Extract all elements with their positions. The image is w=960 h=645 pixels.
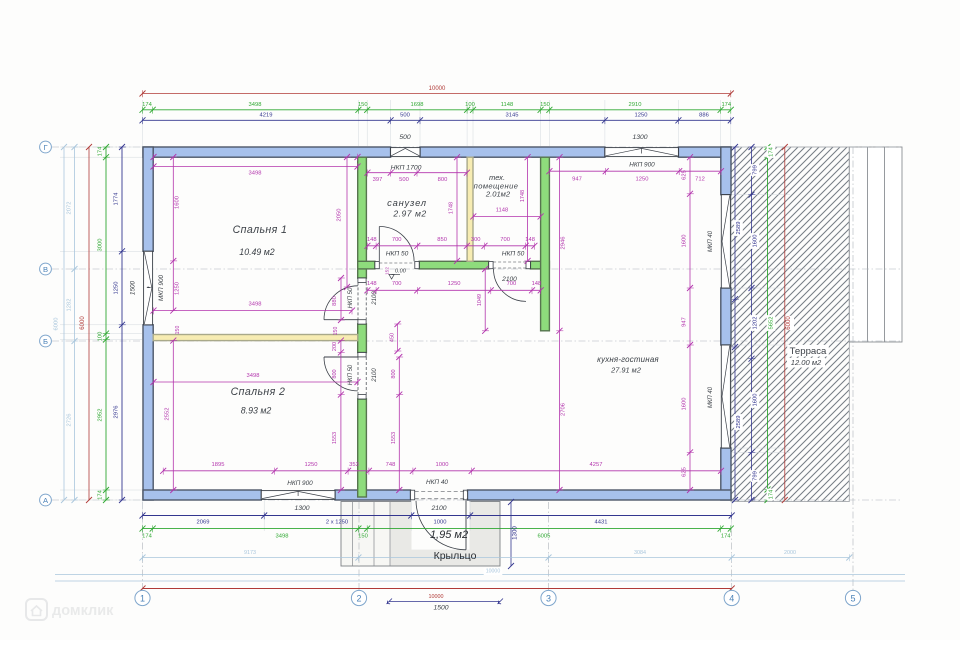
svg-text:НКП 50: НКП 50 bbox=[348, 287, 354, 308]
axis line Б bbox=[52, 340, 902, 342]
label МКП 900 left bbox=[158, 274, 165, 301]
svg-text:148: 148 bbox=[532, 281, 542, 287]
svg-text:6000: 6000 bbox=[80, 316, 86, 330]
dim hall south segs bbox=[391, 354, 403, 493]
dim tech left 1748 bbox=[520, 154, 532, 264]
door entrance swing bbox=[416, 501, 466, 550]
room bedroom2 area bbox=[241, 406, 272, 416]
window label 1500 bbox=[130, 280, 137, 295]
room bath name bbox=[387, 197, 427, 208]
dim bedroom1 right 2050 bbox=[337, 154, 351, 290]
svg-text:2000: 2000 bbox=[784, 550, 796, 556]
room tech name 2 bbox=[474, 182, 519, 191]
label НКП 40 bottom bbox=[426, 479, 448, 486]
svg-text:1250: 1250 bbox=[305, 462, 318, 468]
left red line 6000 bbox=[86, 144, 92, 503]
svg-text:3145: 3145 bbox=[506, 112, 519, 118]
svg-text:3000: 3000 bbox=[98, 239, 104, 252]
svg-text:625: 625 bbox=[682, 467, 688, 477]
dim kitchen east bbox=[682, 154, 694, 493]
label 2100 tech door bbox=[501, 276, 517, 283]
exterior wall right bbox=[721, 147, 731, 500]
svg-text:9173: 9173 bbox=[244, 550, 256, 556]
svg-text:353: 353 bbox=[349, 462, 359, 468]
svg-text:200: 200 bbox=[332, 342, 338, 351]
svg-text:150: 150 bbox=[358, 534, 368, 540]
svg-text:2100: 2100 bbox=[501, 276, 517, 283]
svg-text:2910: 2910 bbox=[629, 102, 642, 108]
svg-text:1250: 1250 bbox=[448, 281, 461, 287]
red line bottom bbox=[140, 586, 735, 592]
svg-text:799: 799 bbox=[753, 165, 759, 175]
svg-text:748: 748 bbox=[386, 462, 396, 468]
svg-text:2 x 1250: 2 x 1250 bbox=[326, 520, 348, 526]
room bedroom1 area bbox=[239, 247, 274, 257]
partition wall bedrooms divider (yellow horizontal) bbox=[153, 335, 358, 341]
dim chain green right bbox=[764, 144, 775, 503]
svg-text:НКП 50: НКП 50 bbox=[348, 364, 354, 385]
svg-text:1300: 1300 bbox=[294, 505, 309, 512]
svg-text:450: 450 bbox=[390, 333, 396, 342]
svg-text:174: 174 bbox=[721, 534, 731, 540]
svg-text:2946: 2946 bbox=[561, 237, 567, 250]
axis bubble В bbox=[40, 263, 52, 275]
svg-text:3498: 3498 bbox=[249, 102, 262, 108]
dim chain dark right inner bbox=[732, 144, 743, 503]
dim bottom row bbox=[160, 462, 724, 475]
svg-text:1748: 1748 bbox=[520, 190, 526, 202]
exterior wall left bbox=[143, 147, 153, 500]
svg-text:1600: 1600 bbox=[753, 394, 759, 407]
elevation mark 0.00 bbox=[389, 269, 407, 280]
door opening dashes bbox=[358, 262, 526, 499]
svg-text:947: 947 bbox=[682, 317, 688, 327]
room bedroom2 name bbox=[231, 386, 286, 398]
dim bedroom2 left 2552 bbox=[165, 338, 178, 493]
label НКП 50 bedroom1 bbox=[348, 287, 354, 308]
svg-text:Спальня 1: Спальня 1 bbox=[233, 224, 288, 236]
svg-text:1500: 1500 bbox=[433, 605, 448, 612]
dim bedroom1 top 3498 bbox=[151, 163, 361, 176]
dim kitchen top row bbox=[546, 168, 724, 183]
label НКП 1700 bbox=[391, 165, 422, 172]
svg-text:800: 800 bbox=[332, 369, 338, 378]
svg-text:4257: 4257 bbox=[590, 462, 603, 468]
svg-text:1300: 1300 bbox=[632, 134, 647, 141]
svg-text:кухня-гостиная: кухня-гостиная bbox=[597, 355, 659, 364]
svg-text:2.01м2: 2.01м2 bbox=[485, 190, 511, 199]
svg-text:Г: Г bbox=[43, 143, 47, 152]
label МКП 40 upper bbox=[708, 230, 714, 252]
axis bubble А bbox=[40, 494, 52, 506]
room porch name bbox=[434, 550, 477, 562]
svg-text:1553: 1553 bbox=[332, 432, 338, 444]
svg-text:10.49 м2: 10.49 м2 bbox=[239, 247, 274, 257]
window size 1300 bbox=[632, 134, 647, 141]
svg-text:100: 100 bbox=[98, 332, 104, 342]
svg-text:148: 148 bbox=[525, 237, 535, 243]
axis line А bbox=[52, 499, 902, 501]
svg-text:174: 174 bbox=[98, 146, 104, 156]
svg-text:2072: 2072 bbox=[67, 202, 73, 215]
svg-text:150: 150 bbox=[540, 102, 550, 108]
dim bedroom2 top 3498 bbox=[151, 373, 361, 386]
svg-text:1000: 1000 bbox=[436, 462, 449, 468]
dim 10000 top bbox=[140, 86, 734, 97]
svg-text:2100: 2100 bbox=[430, 505, 446, 512]
svg-text:10000: 10000 bbox=[486, 569, 501, 575]
svg-text:1600: 1600 bbox=[753, 235, 759, 248]
svg-text:1600: 1600 bbox=[682, 398, 688, 411]
axis bubble 5 bbox=[845, 590, 860, 605]
svg-text:174: 174 bbox=[142, 102, 152, 108]
axis bubble 2 bbox=[351, 590, 366, 605]
svg-text:10000: 10000 bbox=[429, 594, 444, 600]
svg-text:3: 3 bbox=[546, 593, 551, 603]
right red line 6000 bbox=[782, 144, 788, 503]
svg-text:1300: 1300 bbox=[512, 526, 519, 540]
room porch area bbox=[430, 529, 468, 541]
svg-text:1250: 1250 bbox=[114, 282, 120, 295]
label 1300 porch bbox=[512, 526, 519, 540]
svg-text:2589: 2589 bbox=[736, 416, 742, 429]
svg-text:1: 1 bbox=[140, 593, 145, 603]
svg-text:НКП 40: НКП 40 bbox=[426, 479, 448, 486]
svg-text:886: 886 bbox=[699, 112, 709, 118]
svg-text:0.00: 0.00 bbox=[395, 269, 407, 275]
axis line 2 bbox=[358, 502, 360, 590]
svg-text:НКП 50: НКП 50 bbox=[386, 251, 409, 258]
svg-text:1148: 1148 bbox=[496, 208, 508, 214]
label НКП 900 top bbox=[629, 162, 655, 169]
svg-text:Б: Б bbox=[43, 337, 48, 346]
hall north wall (green horizontal) bbox=[358, 261, 550, 269]
axis line 4 bbox=[731, 502, 733, 590]
dim 152 bbox=[385, 267, 391, 275]
dim chain green top bbox=[140, 102, 734, 114]
svg-text:1600: 1600 bbox=[175, 196, 181, 209]
dim 450 bbox=[390, 321, 402, 354]
label НКП 900 bottom bbox=[287, 480, 313, 487]
dim row lightblue bottom bbox=[140, 550, 853, 561]
axis bubble 1 bbox=[135, 590, 150, 605]
frame line bottom 1 bbox=[55, 574, 905, 576]
svg-text:3498: 3498 bbox=[276, 534, 289, 540]
dim chain dark right outer bbox=[748, 144, 759, 503]
window left МКП 900 bbox=[144, 251, 153, 324]
svg-text:397: 397 bbox=[373, 177, 383, 183]
room bath area bbox=[392, 209, 426, 219]
svg-text:2100: 2100 bbox=[372, 291, 378, 306]
window right МКП 40 lower bbox=[721, 345, 730, 448]
svg-text:В: В bbox=[43, 265, 48, 274]
dim chain blue top bbox=[140, 112, 734, 124]
svg-text:625: 625 bbox=[682, 170, 688, 180]
svg-text:174: 174 bbox=[721, 102, 731, 108]
svg-text:Терраса: Терраса bbox=[790, 346, 827, 357]
window size 1300 bottom bbox=[294, 505, 309, 512]
svg-text:5: 5 bbox=[850, 593, 855, 603]
dim wall1 south segs bbox=[332, 338, 345, 493]
label МКП 40 lower bbox=[708, 386, 714, 408]
exterior wall top bbox=[143, 147, 731, 157]
dim 150 left bbox=[175, 326, 181, 335]
dim hall 1049 bbox=[477, 266, 489, 334]
axis line В bbox=[52, 268, 902, 270]
dim hall row bbox=[364, 281, 543, 294]
svg-text:150: 150 bbox=[358, 102, 368, 108]
dim 150 right bbox=[333, 327, 339, 336]
dim chain lightblue left bbox=[67, 144, 79, 503]
svg-text:4: 4 bbox=[729, 593, 734, 603]
svg-text:3084: 3084 bbox=[634, 550, 646, 556]
dim chain green left bbox=[98, 144, 110, 503]
axis line 3 bbox=[548, 502, 550, 590]
svg-text:МКП 40: МКП 40 bbox=[708, 386, 714, 408]
svg-text:НКП 50: НКП 50 bbox=[502, 251, 525, 258]
svg-text:150: 150 bbox=[333, 327, 339, 336]
svg-text:947: 947 bbox=[572, 177, 582, 183]
svg-text:2050: 2050 bbox=[337, 209, 343, 222]
svg-text:700: 700 bbox=[500, 237, 510, 243]
svg-text:НКП 900: НКП 900 bbox=[287, 480, 313, 487]
dim bath top row bbox=[364, 170, 470, 184]
door jambs bbox=[358, 262, 531, 500]
svg-text:2100: 2100 bbox=[372, 368, 378, 383]
corner ticks bedroom1 bbox=[151, 154, 361, 161]
svg-text:1250: 1250 bbox=[175, 282, 181, 295]
extension lines bbox=[60, 100, 790, 531]
dim kitchen west bbox=[556, 154, 566, 493]
svg-text:3498: 3498 bbox=[247, 373, 260, 379]
exterior wall bottom bbox=[143, 490, 731, 500]
svg-text:174: 174 bbox=[98, 489, 104, 499]
svg-text:174: 174 bbox=[769, 489, 775, 499]
door size 2100 bbox=[430, 505, 446, 512]
svg-text:1,95 м2: 1,95 м2 bbox=[430, 529, 468, 541]
label 6000 lightblue bbox=[54, 318, 60, 331]
svg-text:Спальня 2: Спальня 2 bbox=[231, 386, 286, 398]
room terrace area bbox=[787, 358, 825, 368]
svg-text:800: 800 bbox=[391, 369, 397, 378]
svg-text:6000: 6000 bbox=[54, 318, 60, 331]
svg-text:1698: 1698 bbox=[411, 102, 424, 108]
svg-text:2706: 2706 bbox=[561, 403, 567, 416]
svg-text:12.00 м2: 12.00 м2 bbox=[791, 358, 822, 367]
svg-text:1500: 1500 bbox=[130, 280, 137, 295]
svg-text:150: 150 bbox=[175, 326, 181, 335]
svg-text:1250: 1250 bbox=[635, 112, 648, 118]
label НКП 50 tech bbox=[502, 251, 525, 258]
dim bedroom1 bottom 3498 bbox=[151, 302, 356, 315]
bath-tech divider (yellow vertical) bbox=[467, 157, 473, 261]
dim chain blue bottom bbox=[140, 512, 735, 525]
door bedroom2 swing bbox=[324, 357, 358, 391]
svg-text:152: 152 bbox=[385, 267, 391, 275]
svg-text:2589: 2589 bbox=[736, 222, 742, 235]
svg-text:1600: 1600 bbox=[682, 235, 688, 248]
svg-text:700: 700 bbox=[392, 237, 402, 243]
svg-text:8.93 м2: 8.93 м2 bbox=[241, 406, 272, 416]
svg-text:3498: 3498 bbox=[249, 171, 262, 177]
axis bubble 4 bbox=[724, 590, 739, 605]
terrace hatched area bbox=[731, 147, 849, 502]
svg-text:2726: 2726 bbox=[67, 414, 73, 427]
svg-text:100: 100 bbox=[465, 102, 475, 108]
window size 500 bbox=[399, 134, 411, 141]
room bedroom1 name bbox=[233, 224, 288, 236]
svg-text:148: 148 bbox=[367, 237, 377, 243]
scale bar bbox=[387, 594, 504, 612]
svg-text:500: 500 bbox=[399, 177, 409, 183]
room terrace name bbox=[787, 345, 829, 357]
axis line 5 bbox=[852, 147, 854, 590]
partition wall bedroom side (green vertical) bbox=[358, 157, 367, 497]
svg-text:800: 800 bbox=[438, 177, 448, 183]
svg-text:300: 300 bbox=[471, 237, 481, 243]
svg-text:1553: 1553 bbox=[391, 432, 397, 444]
room tech name 1 bbox=[489, 173, 505, 182]
svg-text:850: 850 bbox=[437, 237, 447, 243]
svg-text:500: 500 bbox=[400, 112, 410, 118]
svg-text:2.97 м2: 2.97 м2 bbox=[392, 209, 426, 219]
svg-text:10000: 10000 bbox=[429, 86, 446, 92]
axis line 1 bbox=[142, 502, 144, 590]
svg-text:1148: 1148 bbox=[501, 102, 513, 108]
svg-text:домклик: домклик bbox=[52, 603, 114, 619]
axis bubble Б bbox=[40, 335, 52, 347]
svg-text:1774: 1774 bbox=[114, 192, 120, 206]
svg-text:799: 799 bbox=[753, 471, 759, 481]
label 6000 red right bbox=[786, 316, 794, 331]
svg-text:1250: 1250 bbox=[636, 177, 649, 183]
svg-text:2976: 2976 bbox=[114, 406, 120, 419]
label НКП 50 bath bbox=[386, 251, 409, 258]
room tech area bbox=[485, 190, 511, 199]
room kitchen area bbox=[610, 366, 641, 375]
window right МКП 40 upper bbox=[721, 195, 730, 288]
svg-text:4431: 4431 bbox=[595, 520, 608, 526]
svg-text:1049: 1049 bbox=[477, 294, 483, 306]
frame line bottom 2 bbox=[55, 580, 905, 582]
svg-text:МКП 900: МКП 900 bbox=[158, 274, 165, 301]
dim bedroom1 left bbox=[170, 154, 181, 314]
dim chain green bottom bbox=[140, 525, 734, 539]
svg-text:1748: 1748 bbox=[449, 202, 455, 214]
svg-text:2069: 2069 bbox=[197, 520, 210, 526]
svg-text:1282: 1282 bbox=[67, 299, 73, 312]
svg-text:Крыльцо: Крыльцо bbox=[434, 550, 477, 562]
porch slab bbox=[341, 501, 500, 566]
label НКП 50 bedroom2 bbox=[348, 364, 354, 385]
window top-right НКП 900 bbox=[605, 148, 679, 157]
svg-text:6000: 6000 bbox=[786, 316, 792, 330]
svg-text:1202: 1202 bbox=[753, 317, 759, 330]
left frame line 6000 bbox=[61, 144, 67, 503]
watermark logo bbox=[26, 599, 114, 620]
svg-text:3498: 3498 bbox=[249, 302, 262, 308]
window bottom НКП 900 bbox=[261, 491, 335, 500]
door tech room swing bbox=[494, 269, 527, 302]
label 2100 bedroom2 bbox=[372, 368, 378, 383]
svg-text:174: 174 bbox=[142, 534, 152, 540]
label 10000 lightblue bbox=[484, 568, 503, 575]
door bathroom swing bbox=[379, 227, 414, 262]
axis bubble Г bbox=[40, 141, 52, 153]
axis bubble 3 bbox=[541, 590, 556, 605]
dim bedroom1 door 880 bbox=[332, 275, 345, 323]
svg-text:2552: 2552 bbox=[165, 408, 171, 421]
svg-text:700: 700 bbox=[392, 281, 402, 287]
svg-text:НКП 1700: НКП 1700 bbox=[391, 165, 422, 172]
svg-text:2952: 2952 bbox=[98, 409, 104, 422]
svg-text:880: 880 bbox=[332, 296, 338, 306]
svg-text:1000: 1000 bbox=[434, 520, 447, 526]
label 2100 bedroom1 bbox=[372, 291, 378, 306]
structure right of terrace bbox=[849, 147, 902, 342]
svg-text:МКП 40: МКП 40 bbox=[708, 230, 714, 252]
porch dim 1300 bbox=[508, 499, 514, 569]
label 6000 red bbox=[80, 316, 86, 330]
svg-text:2: 2 bbox=[356, 593, 361, 603]
svg-text:1895: 1895 bbox=[212, 462, 225, 468]
svg-text:27.91 м2: 27.91 м2 bbox=[610, 366, 641, 375]
dim tech 1148 bbox=[470, 208, 543, 221]
svg-text:5652: 5652 bbox=[769, 317, 775, 330]
svg-text:НКП 900: НКП 900 bbox=[629, 162, 655, 169]
svg-text:174: 174 bbox=[769, 146, 775, 156]
dim bath mid row bbox=[364, 237, 537, 250]
dim chain dark left bbox=[114, 144, 126, 503]
room kitchen name bbox=[597, 355, 659, 364]
svg-text:санузел: санузел bbox=[387, 197, 427, 208]
svg-text:148: 148 bbox=[367, 281, 377, 287]
window top-left НКП 1700 bbox=[391, 148, 420, 157]
svg-text:4219: 4219 bbox=[260, 112, 273, 118]
door bedroom1 swing bbox=[324, 286, 358, 320]
svg-text:712: 712 bbox=[695, 177, 705, 183]
svg-text:500: 500 bbox=[399, 134, 411, 141]
axis line Г bbox=[52, 146, 902, 148]
dim bath right 1748 bbox=[449, 154, 461, 264]
svg-text:6005: 6005 bbox=[537, 534, 550, 540]
tech-kitchen wall (green vertical) bbox=[541, 157, 550, 331]
